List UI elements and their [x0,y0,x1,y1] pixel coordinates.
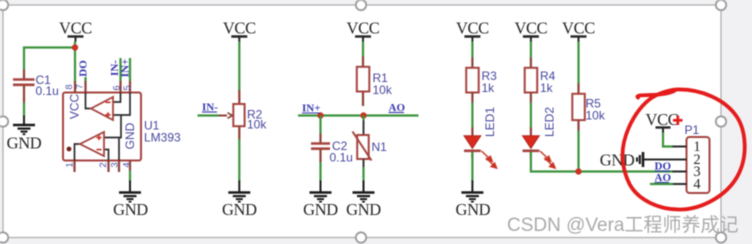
resistor R4 [525,58,538,104]
ground GND (P1 pin2) [600,151,643,170]
label R1 10k [373,71,393,97]
U1 internal wire comparator B minus to pin 2 [104,150,109,161]
thermistor N1 [353,121,372,168]
power VCC (R5 column) [562,19,595,42]
pin 1 stub [673,146,687,148]
svg-text:GND: GND [113,200,148,219]
net label IN- [202,102,218,114]
svg-text:LM393: LM393 [144,131,181,145]
svg-text:N1: N1 [372,140,388,154]
pin 2 stub [643,159,687,161]
wire VCC1 to C1 top [24,48,75,70]
wire junction to N1 [362,116,364,122]
U1 internal wire comparator B output to pin 1 [75,144,81,161]
wire VCC to P1 pin1 [663,133,673,147]
power VCC (U1 column) [59,19,92,42]
pin 4 stub [129,161,131,171]
wire IN+ / AO bus [298,114,419,116]
LED1 [464,128,497,169]
svg-text:GND: GND [7,134,42,153]
svg-text:LED2: LED2 [543,107,557,137]
power VCC (R2 column) [223,19,256,42]
svg-text:0.1u: 0.1u [36,84,59,98]
comparator B triangle (points left) [80,132,104,156]
svg-text:GND: GND [346,200,381,219]
svg-text:10k: 10k [586,109,606,123]
svg-text:IN+: IN+ [119,59,131,78]
svg-text:VCC: VCC [456,19,489,38]
svg-text:3: 3 [110,162,121,167]
svg-text:VCC: VCC [562,19,595,38]
svg-text:GND: GND [303,200,338,219]
power VCC (R4 column) [514,19,547,42]
wire C1 to GND [23,103,25,117]
svg-text:VCC: VCC [223,19,256,38]
pin 5 wire IN+ [129,58,131,82]
U1 internal wire pin5 to comparator A plus [113,93,130,116]
svg-text:GND: GND [222,200,257,219]
svg-text:GND: GND [123,122,137,149]
resistor R1 [357,57,370,107]
label C2 0.1u [330,139,353,165]
svg-text:5: 5 [122,85,133,90]
net label AO (P1) [655,172,672,184]
comparator B minus mark [97,149,102,151]
resistor R5 [572,84,585,132]
ground GND (C1) [7,116,42,153]
pin 2 stub [107,161,109,173]
power VCC (R3 column) [456,19,489,42]
wire LED2 to bus [531,152,579,172]
ground GND (LED1) [456,181,491,220]
LED2 [523,128,556,169]
pin 6 wire IN- [119,58,121,82]
op-amp U1 body [63,93,141,161]
svg-text:LED1: LED1 [483,107,497,137]
wire IN- to R2 wiper [198,114,219,116]
resistor R3 [466,58,479,104]
wire U1 pin4 to GND [129,171,131,182]
label R4 1k [540,69,556,95]
wire VCC to R2 [238,42,240,91]
svg-text:6: 6 [111,85,122,90]
pin 3 stub [118,161,120,173]
U1 internal wire pin7 to comparator A output [86,93,92,109]
svg-text:GND: GND [600,151,635,170]
wire VCC to R3 [471,42,473,59]
label R3 1k [482,69,498,95]
junction R1 bottom [360,112,366,118]
svg-text:4: 4 [121,162,132,167]
pin 8 stub [74,81,76,93]
svg-text:1k: 1k [482,81,496,95]
svg-text:4: 4 [693,177,701,193]
U1 internal wire comparator B plus node to pin 3 [118,138,120,161]
junction VCC1 node [72,44,78,50]
pin 5 stub [129,81,131,93]
comparator A minus mark [106,101,111,103]
svg-text:7: 7 [75,84,86,89]
U1 internal wire to comparator B plus [104,115,121,138]
junction R5 bottom [575,168,581,174]
label C1 0.1u [36,73,59,98]
net label IN+ [302,103,321,115]
capacitor C2 [311,134,330,163]
svg-text:10k: 10k [373,83,393,97]
pin 7 wire DO [84,77,86,82]
potentiometer R2 [218,90,245,140]
annotation red plus [673,116,683,125]
svg-text:2: 2 [98,162,109,167]
svg-text:1k: 1k [540,81,554,95]
pin 4 stub [673,183,687,185]
label U1 LM393 [144,119,181,145]
net label DO (P1) [655,161,672,173]
comparator A triangle (points left) [91,97,113,120]
svg-text:P1: P1 [685,123,700,137]
wire VCC1 down to U1 pin 8 [74,42,76,83]
power VCC (R1 column) [347,19,380,42]
svg-text:CSDN @Vera工程师养成记: CSDN @Vera工程师养成记 [507,214,739,236]
svg-text:1: 1 [64,162,75,167]
svg-text:DO: DO [78,60,90,77]
ground GND (R2) [222,181,257,220]
wire R2 to GND [238,139,240,181]
wire VCC to R5 [577,42,579,85]
U1 pin1 orientation dot [67,147,72,152]
junction C2 top [317,112,323,118]
wire R4 to LED2 [530,103,532,129]
ground GND (U1 pin4) [113,181,148,220]
comparator A plus mark [106,112,111,117]
wire VCC to R1 [362,42,364,58]
ground GND (C2) [303,181,338,220]
svg-text:0.1u: 0.1u [330,151,353,165]
wire C2 to GND [319,162,321,181]
pin 3 stub [673,171,687,173]
label R2 10k [247,108,267,132]
wire bus to P1 pin3 [579,170,674,172]
svg-text:VCC: VCC [514,19,547,38]
svg-text:GND: GND [456,200,491,219]
wire N1 to GND [362,167,364,181]
capacitor C1 [13,70,35,103]
connector P1 body [687,137,710,193]
power VCC (P1) [646,110,679,133]
ground GND (N1) [346,181,381,220]
pin 6 stub [119,81,121,93]
net label AO [389,102,406,114]
svg-text:10k: 10k [247,118,267,132]
wire R5 to bus [577,131,579,172]
U1 internal wire pin6 to comparator A minus [113,93,121,103]
pin 7 stub [84,81,86,93]
label R5 10k [586,97,606,123]
wire AO to P1 pin4 [650,183,673,185]
svg-text:VCC: VCC [59,19,92,38]
wire R3 to LED1 [471,103,473,129]
svg-text:VCC: VCC [68,94,82,120]
svg-text:VCC: VCC [347,19,380,38]
pin 1 stub [73,161,75,173]
svg-text:8: 8 [64,84,75,89]
wire junction to C2 [319,116,321,135]
wire LED1 to GND [471,152,473,181]
wire VCC to R4 [530,42,532,59]
comparator B plus mark [97,135,102,140]
annotation hand-drawn red ellipse [623,89,745,209]
